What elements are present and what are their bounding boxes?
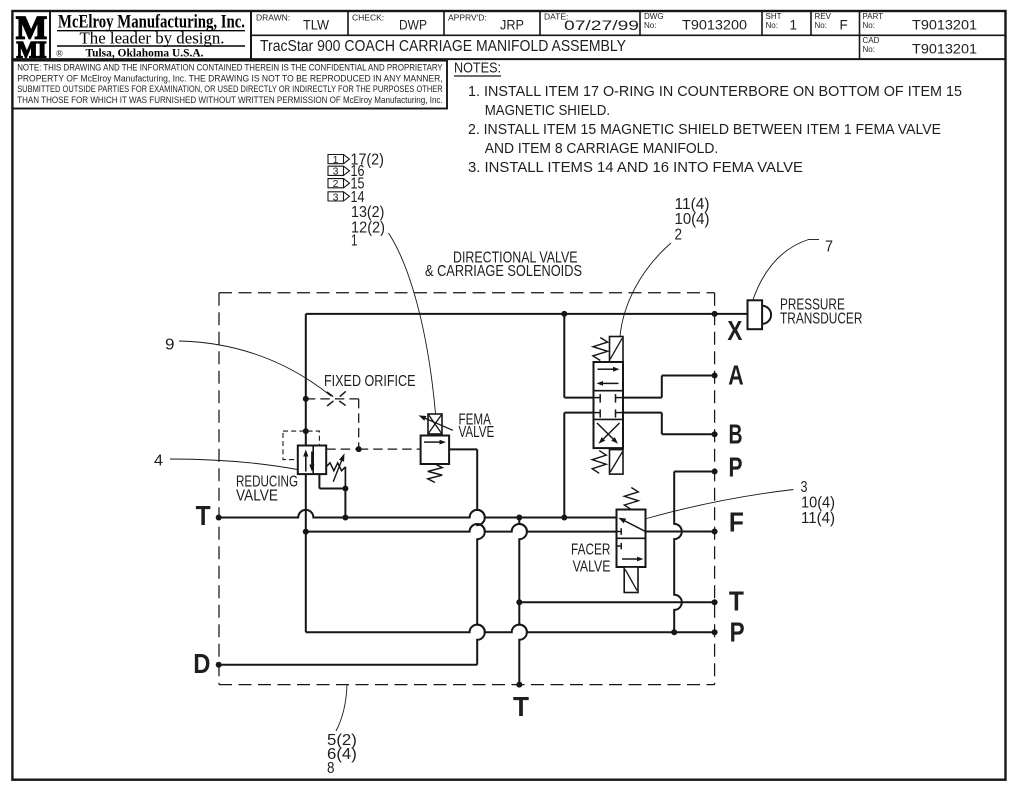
svg-text:MAGNETIC SHIELD.: MAGNETIC SHIELD. (485, 103, 610, 119)
svg-text:T: T (729, 586, 744, 617)
svg-text:07/27/99: 07/27/99 (564, 17, 639, 33)
junction rail / pilot box (303, 428, 309, 434)
note box (12, 61, 447, 109)
svg-text:NOTES:: NOTES: (454, 60, 501, 77)
svg-text:P: P (729, 452, 743, 483)
leader 5(2) 6(4) 8 (336, 685, 347, 731)
adjust arrow (333, 461, 341, 482)
node T port left (216, 515, 222, 521)
svg-text:2: 2 (675, 227, 683, 244)
node D port (216, 662, 222, 668)
wire: directional valve supply branch (563, 314, 565, 398)
svg-text:APPRV'D:: APPRV'D: (448, 13, 487, 23)
wire: left vertical rail (305, 314, 307, 632)
svg-text:Tulsa, Oklahoma U.S.A.: Tulsa, Oklahoma U.S.A. (86, 48, 204, 60)
junction P bypass / P rail (671, 629, 677, 635)
title block grid (12, 58, 1005, 60)
wire: bottom P rail with hops (306, 625, 715, 633)
svg-text:3. INSTALL ITEMS 14 AND 16 INT: 3. INSTALL ITEMS 14 AND 16 INTO FEMA VAL… (468, 160, 803, 176)
svg-text:T9013200: T9013200 (682, 18, 747, 33)
svg-text:VALVE: VALVE (459, 424, 495, 441)
facer spring above (624, 488, 638, 510)
svg-text:REV: REV (815, 12, 832, 21)
leader 2 (620, 243, 671, 337)
svg-text:9: 9 (165, 337, 175, 354)
wire: T line lower right (519, 601, 714, 603)
node T port right (712, 599, 718, 605)
junction reducing valve drain (342, 486, 348, 492)
svg-text:T9013201: T9013201 (912, 18, 977, 33)
svg-text:TRANSDUCER: TRANSDUCER (780, 311, 862, 328)
node T port bottom (516, 682, 522, 688)
node B port (712, 431, 718, 437)
directional valve top solenoid (610, 337, 624, 363)
svg-text:3: 3 (333, 166, 339, 178)
wire: A port (623, 397, 662, 399)
directional valve V1 body (594, 362, 624, 448)
svg-text:B: B (729, 419, 743, 450)
svg-text:No:: No: (766, 21, 778, 30)
facer diagonal arrow (625, 521, 646, 531)
svg-text:VALVE: VALVE (573, 558, 611, 575)
leader 7 (753, 240, 809, 300)
node A port (712, 373, 718, 379)
wire: F line (646, 531, 715, 533)
svg-text:The leader by design.: The leader by design. (80, 29, 225, 48)
bottom cell arrow (622, 558, 637, 560)
svg-text:JRP: JRP (500, 18, 524, 33)
facer solenoid (624, 567, 638, 593)
svg-text:PROPERTY OF McElroy Manufactur: PROPERTY OF McElroy Manufacturing, Inc. … (17, 73, 443, 83)
svg-text:DWG: DWG (644, 12, 664, 21)
svg-text:THAN THOSE FOR WHICH IT WAS FU: THAN THOSE FOR WHICH IT WAS FURNISHED WI… (17, 95, 443, 105)
reducing valve drain (318, 474, 320, 488)
svg-text:MI: MI (17, 38, 47, 63)
item flag 2 -> 15 (328, 179, 350, 188)
manifold dashed boundary (219, 292, 715, 294)
svg-text:F: F (840, 18, 848, 33)
svg-text:FACER: FACER (571, 542, 610, 559)
svg-text:TLW: TLW (303, 18, 329, 33)
svg-text:VALVE: VALVE (236, 487, 278, 504)
junction left rail / second rail (303, 529, 309, 535)
svg-text:13(2): 13(2) (351, 204, 384, 221)
svg-text:CHECK:: CHECK: (352, 13, 384, 23)
svg-text:PART: PART (863, 12, 884, 21)
pilot line: orifice branch (306, 398, 359, 400)
svg-text:SHT: SHT (766, 12, 782, 21)
svg-text:T9013201: T9013201 (912, 42, 977, 57)
leader 9 (179, 341, 331, 396)
svg-text:1: 1 (351, 233, 358, 250)
svg-text:11(4): 11(4) (801, 510, 835, 527)
wire: T rail with hops (219, 510, 617, 518)
svg-text:1. INSTALL ITEM 17 O-RING IN C: 1. INSTALL ITEM 17 O-RING IN COUNTERBORE… (468, 84, 962, 100)
node P port upper (712, 469, 718, 475)
svg-text:CAD: CAD (863, 36, 880, 45)
item flag 3 -> 16 (328, 166, 350, 175)
svg-text:®: ® (56, 49, 63, 59)
wire: T drop to bottom tank (519, 518, 527, 685)
junction T drop / T line (516, 599, 522, 605)
svg-text:T: T (196, 500, 211, 531)
reducing valve pilot box (283, 431, 319, 460)
item flag 3 -> 14 (328, 192, 350, 201)
facer valve V2 body (617, 510, 646, 568)
down arrow (311, 452, 313, 465)
blocked ports (617, 531, 622, 533)
reducing valve R1 body (298, 446, 326, 475)
svg-text:P: P (730, 617, 745, 648)
svg-text:3: 3 (333, 191, 339, 203)
svg-text:D: D (193, 648, 210, 679)
wire: P bypass from upper P port (674, 471, 714, 473)
bottom solenoid (610, 450, 624, 475)
FEMA valve U1 body (421, 436, 450, 465)
leader 12(2) (389, 233, 436, 414)
wire: FEMA drain riser with hops (477, 449, 485, 664)
svg-text:AND ITEM 8 CARRIAGE MANIFOLD.: AND ITEM 8 CARRIAGE MANIFOLD. (485, 141, 719, 157)
wire: second rail with hops (306, 524, 617, 532)
bottom spring (592, 451, 606, 474)
svg-text:3: 3 (801, 479, 808, 496)
junction valve tank branch / T rail (561, 515, 567, 521)
svg-text:X: X (727, 315, 742, 346)
svg-text:FIXED ORIFICE: FIXED ORIFICE (324, 373, 416, 390)
svg-text:& CARRIAGE SOLENOIDS: & CARRIAGE SOLENOIDS (425, 263, 582, 280)
svg-text:2. INSTALL ITEM 15 MAGNETIC SH: 2. INSTALL ITEM 15 MAGNETIC SHIELD BETWE… (468, 122, 941, 138)
svg-text:1: 1 (790, 18, 798, 33)
svg-text:No:: No: (863, 21, 875, 30)
node F port (712, 529, 718, 535)
svg-text:TracStar 900 COACH CARRIAGE MA: TracStar 900 COACH CARRIAGE MANIFOLD ASS… (260, 38, 626, 55)
svg-text:1: 1 (333, 154, 339, 166)
junction pilot tee (356, 446, 362, 452)
pressure transducer (748, 300, 763, 329)
svg-text:SUBMITTED OUTSIDE PARTIES FOR: SUBMITTED OUTSIDE PARTIES FOR EXAMINATIO… (17, 84, 443, 94)
junction T rail / T drop (516, 515, 522, 521)
reducing valve spring (326, 463, 345, 471)
junction top rail / directional valve branch (561, 311, 567, 317)
svg-text:10(4): 10(4) (801, 495, 835, 512)
junction rail / orifice pilot (303, 396, 309, 402)
wire: B port (623, 412, 662, 414)
up arrow (305, 457, 307, 472)
leader 3 (647, 490, 794, 519)
fixed orifice (327, 392, 332, 396)
wire: directional valve tank branch (564, 412, 593, 414)
pilot line to FEMA valve (359, 448, 421, 450)
node X port (712, 311, 718, 317)
top spring (593, 338, 608, 361)
position 2 blocked center (594, 397, 601, 399)
svg-text:No:: No: (863, 45, 875, 54)
wire: D line (219, 664, 478, 666)
svg-text:No:: No: (644, 21, 656, 30)
svg-text:7: 7 (825, 238, 833, 255)
svg-text:A: A (728, 360, 743, 391)
svg-text:DWP: DWP (399, 18, 427, 33)
svg-text:T: T (513, 691, 529, 722)
svg-text:NOTE: THIS DRAWING AND THE INF: NOTE: THIS DRAWING AND THE INFORMATION C… (17, 63, 443, 73)
leader 4 (170, 459, 298, 470)
svg-text:4: 4 (154, 453, 163, 470)
svg-text:DRAWN:: DRAWN: (256, 13, 290, 23)
position 1 arrows (598, 368, 614, 370)
svg-text:10(4): 10(4) (675, 211, 710, 228)
svg-text:No:: No: (815, 21, 827, 30)
svg-text:F: F (729, 507, 744, 538)
node P port lower (712, 629, 718, 635)
junction drain / T rail (342, 515, 348, 521)
FEMA spring (428, 464, 442, 483)
wire: top pressure rail (306, 313, 748, 315)
pilot line to reducing valve (326, 448, 359, 450)
svg-text:8: 8 (327, 760, 335, 777)
svg-text:2: 2 (333, 178, 339, 190)
position 3 crossed arrows (603, 423, 619, 439)
item flag 1 -> 17(2) (328, 155, 350, 164)
FEMA proportional solenoid (428, 414, 442, 434)
